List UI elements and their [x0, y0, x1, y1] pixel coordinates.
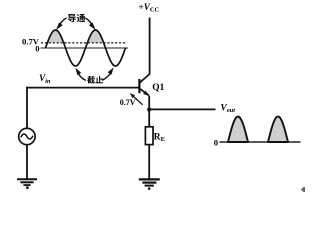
output waveform: 0 axis line — [220, 141, 301, 143]
transistor Q1 base bar — [138, 79, 140, 93]
transistor Q1 emitter lead with arrow — [140, 89, 149, 96]
svg-text:0.7V: 0.7V — [120, 98, 136, 107]
transistor Q1 collector lead — [140, 74, 150, 83]
arrow: cutoff label to trough 2 — [102, 73, 111, 80]
wire: Vin to base of Q1 — [26, 87, 139, 89]
input waveform: sine curve — [46, 30, 126, 66]
output waveform: half-wave hump 2 — [268, 117, 288, 143]
svg-text:Vout: Vout — [221, 103, 236, 114]
svg-text:+VCC: +VCC — [139, 2, 160, 14]
decorative-ish gray cursor mark (bottom right, part of source image) — [301, 187, 305, 193]
ac source — [19, 128, 35, 144]
wire: ac source to ground — [26, 145, 28, 179]
input waveform: shaded conduction region (peak 2) — [87, 30, 103, 43]
wire: emitter down to output node — [148, 96, 150, 127]
label "jiezhi" (cutoff) — [87, 76, 95, 84]
svg-text:0: 0 — [35, 44, 39, 54]
ground (left, ac source) — [17, 178, 37, 180]
input waveform: 0.7V dashed threshold line — [41, 42, 126, 44]
arrow: cutoff label to trough 1 — [78, 74, 85, 81]
resistor RE — [145, 127, 153, 145]
ground (right, emitter resistor) — [139, 178, 160, 180]
svg-text:0: 0 — [214, 138, 218, 148]
wire: Vin node down to AC source — [26, 87, 28, 129]
svg-text:Vin: Vin — [39, 74, 51, 85]
input waveform: 0 axis line — [41, 47, 129, 49]
wire: collector to +VCC rail — [149, 18, 151, 75]
arrow: conduction label to peak 2 — [85, 18, 92, 26]
arrow: conduction label to peak 1 — [59, 18, 66, 26]
svg-text:RE: RE — [154, 132, 166, 143]
node: emitter/RE/Vout junction dot — [147, 108, 151, 112]
wire: output node to Vout — [149, 108, 215, 110]
input waveform: shaded conduction region (peak 1) — [47, 30, 63, 43]
wire: RE to ground — [148, 145, 150, 179]
label "daotong" (conduction) — [68, 14, 76, 22]
svg-text:Q1: Q1 — [152, 83, 164, 93]
output waveform: half-wave hump 1 — [228, 117, 248, 143]
